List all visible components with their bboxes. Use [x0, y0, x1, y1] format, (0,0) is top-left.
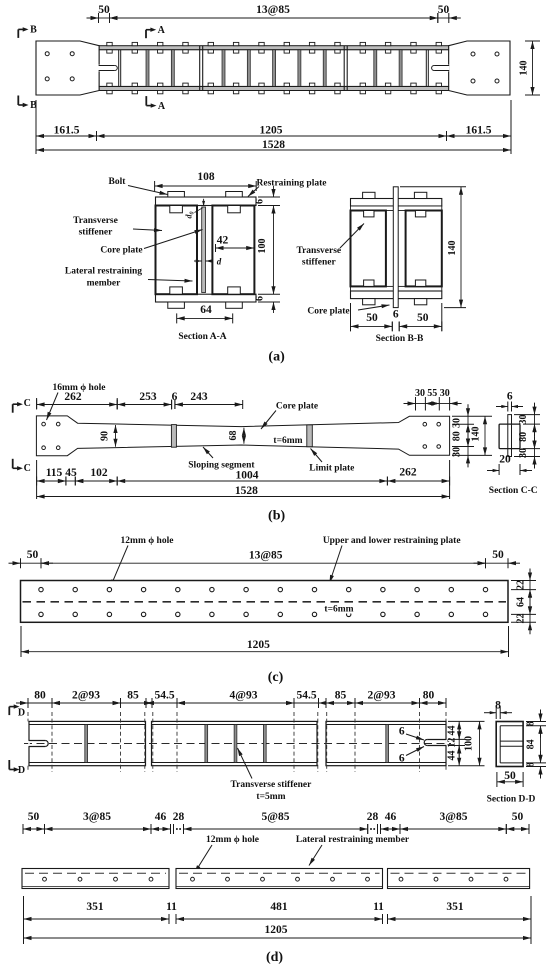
label d0 (A-A) [185, 199, 206, 219]
bottom restraining plate (A-A) [156, 294, 257, 302]
dim 262 bottom (b) [387, 460, 449, 499]
dim 115 (b) [37, 460, 66, 499]
dim 50 left (c) [9, 549, 54, 568]
svg-text:1528: 1528 [235, 485, 258, 497]
bolt holes strips (d) [43, 877, 508, 881]
dim 1205 (c) [21, 626, 509, 657]
core plate (B-B) [393, 187, 398, 308]
centerline dashed (d) [24, 743, 451, 745]
svg-text:6: 6 [507, 391, 513, 403]
core slot left (d) [28, 741, 48, 747]
svg-text:Core plate: Core plate [307, 307, 349, 317]
label Transverse stiffener (B-B) [296, 224, 364, 268]
svg-text:1205: 1205 [265, 924, 288, 936]
dim 253 top (b) [117, 391, 171, 410]
svg-text:Restraining plate: Restraining plate [257, 179, 327, 189]
dim 1205 (d) [24, 924, 532, 940]
svg-text:1528: 1528 [262, 139, 285, 151]
svg-text:140: 140 [447, 241, 458, 256]
upper restraining plate band (a) [99, 46, 448, 50]
dim d core thickness (A-A) [194, 257, 222, 267]
dim 140 (B-B) [400, 187, 466, 308]
svg-text:42: 42 [217, 235, 229, 247]
svg-text:Upper and lower restraining pl: Upper and lower restraining plate [323, 536, 461, 546]
svg-text:102: 102 [90, 467, 108, 479]
bolts (B-B) [363, 192, 427, 305]
svg-text:13@85: 13@85 [249, 550, 283, 562]
dim 6 top (A-A) [255, 186, 281, 204]
label Limit plate (b) [309, 449, 354, 474]
svg-text:64: 64 [200, 304, 212, 316]
dim 6 top (b) [172, 391, 178, 409]
dim 64 (A-A) [177, 304, 233, 323]
dims hole spacing row (d) [23, 811, 529, 834]
label 16mm hole (b) [47, 383, 106, 420]
extension lines (a) bottom [36, 100, 511, 154]
section marker D top [9, 704, 25, 718]
label 12mm hole (d) [195, 835, 259, 873]
svg-text:100: 100 [464, 736, 475, 751]
svg-text:108: 108 [197, 171, 215, 183]
svg-text:2@93: 2@93 [72, 690, 100, 702]
holes right end (b) [423, 422, 441, 448]
dim 44-12-44 (d) [447, 721, 485, 765]
slot end stiffener left (a) [119, 50, 121, 87]
svg-text:44: 44 [447, 726, 458, 736]
top flange band (B-B) [351, 206, 442, 211]
svg-text:80: 80 [34, 690, 46, 702]
svg-text:6: 6 [393, 309, 399, 321]
right lateral restraining member (B-B) [406, 211, 442, 287]
top restraining plate (B-B) [351, 199, 442, 207]
svg-text:3@85: 3@85 [440, 811, 468, 823]
label Core plate (b) [261, 402, 318, 430]
dim 6 bottom (A-A) [255, 296, 281, 313]
caption (a) [268, 350, 285, 365]
svg-text:t=6mm: t=6mm [324, 605, 353, 615]
dim 6 (C-C) [496, 391, 523, 412]
svg-text:50: 50 [417, 312, 429, 324]
svg-text:46: 46 [385, 811, 397, 823]
svg-text:stiffener: stiffener [79, 228, 114, 238]
svg-text:100: 100 [257, 239, 268, 254]
svg-text:Bolt: Bolt [109, 177, 127, 187]
dim 13@85 (a) top [110, 4, 438, 23]
svg-text:6: 6 [255, 199, 266, 204]
dim 351 right (d) [388, 896, 532, 944]
svg-text:(b): (b) [268, 509, 285, 524]
caption Section B-B [376, 334, 424, 344]
svg-text:22: 22 [516, 580, 527, 590]
svg-text:140: 140 [471, 427, 482, 442]
dim 262 top (b) [37, 391, 118, 410]
svg-text:54.5: 54.5 [154, 690, 174, 702]
svg-text:85: 85 [127, 690, 139, 702]
dim 68 (b) [228, 428, 246, 444]
left end plate (a) [36, 41, 99, 95]
dim 1205 (a) [97, 125, 447, 142]
label 6 top slot (d) [399, 726, 424, 741]
svg-text:50: 50 [504, 770, 516, 782]
svg-text:22: 22 [516, 614, 527, 624]
dim 50 right (a) top [426, 4, 461, 23]
svg-text:Section D-D: Section D-D [487, 795, 536, 805]
label Bolt (A-A) [109, 177, 168, 195]
caption (d) [266, 950, 283, 965]
label Core plate (B-B) [307, 304, 389, 316]
dim 50 left (a) top [87, 4, 122, 23]
svg-text:C: C [24, 463, 31, 474]
dim 8-84-8 right (D-D) [526, 710, 547, 779]
bolt tabs (a) [107, 42, 442, 93]
dim 30-80-30 (C-C) [514, 403, 540, 469]
svg-text:481: 481 [270, 901, 288, 913]
svg-text:12mm ϕ hole: 12mm ϕ hole [121, 536, 174, 546]
dim 20 (C-C) [487, 454, 532, 476]
svg-text:50: 50 [28, 811, 40, 823]
holes left end (b) [42, 422, 60, 449]
svg-text:Limit plate: Limit plate [309, 464, 354, 474]
svg-text:161.5: 161.5 [466, 125, 492, 137]
svg-text:D: D [18, 765, 25, 776]
svg-text:Transverse: Transverse [296, 246, 341, 256]
svg-text:D: D [18, 708, 25, 719]
label t=6mm (b) [273, 436, 302, 446]
svg-text:30: 30 [452, 447, 463, 457]
dim 100 (A-A) [257, 206, 280, 295]
label Lateral restraining member (A-A) [65, 267, 193, 289]
svg-text:50: 50 [98, 4, 110, 16]
svg-text:50: 50 [438, 4, 450, 16]
dim 13@85 (c) [41, 550, 486, 569]
top restraining plate (A-A) [156, 197, 257, 206]
section D-D inner lines [500, 726, 523, 763]
slot end stiffener right (a) [426, 50, 428, 87]
dim 22-64-22 (c) [511, 569, 536, 635]
svg-text:30: 30 [518, 415, 529, 425]
svg-text:6: 6 [399, 753, 405, 765]
svg-text:Section B-B: Section B-B [376, 334, 424, 344]
core slot right (a) [432, 65, 450, 72]
bolt lines dashed (d) [28, 712, 446, 772]
bottom restraining plate (B-B) [351, 291, 442, 299]
svg-text:351: 351 [86, 901, 104, 913]
svg-text:12: 12 [447, 738, 458, 748]
caption (b) [268, 509, 285, 524]
core plate edge (A-A) [202, 207, 206, 293]
section marker D bottom [9, 760, 25, 776]
svg-text:80: 80 [452, 431, 463, 441]
dim 11 left (d) [166, 901, 177, 924]
segment splice right (a) [344, 46, 347, 91]
svg-text:stiffener: stiffener [302, 258, 337, 268]
svg-text:11: 11 [166, 901, 177, 913]
label Upper and lower restraining plate (c) [323, 536, 461, 583]
svg-text:351: 351 [446, 901, 464, 913]
svg-text:Lateral restraining member: Lateral restraining member [296, 835, 410, 845]
bottom flange band (B-B) [351, 286, 442, 291]
left lateral restraining member (A-A) [156, 206, 198, 295]
restraining plate (c) [21, 581, 509, 623]
svg-text:20: 20 [499, 454, 511, 466]
centerline dashed (c) [23, 601, 507, 603]
svg-text:262: 262 [399, 467, 417, 479]
bolts (A-A) [168, 192, 243, 309]
svg-text:64: 64 [516, 597, 527, 607]
left lateral restraining member (B-B) [351, 211, 386, 287]
svg-text:46: 46 [155, 811, 167, 823]
svg-text:6: 6 [255, 296, 266, 301]
dim 108 (A-A) [155, 171, 257, 191]
dim 42 (A-A) [216, 235, 255, 253]
svg-text:5@85: 5@85 [262, 811, 290, 823]
svg-text:A: A [158, 101, 166, 112]
dim 481 (d) [176, 901, 383, 924]
svg-text:50: 50 [512, 811, 524, 823]
dim 1528 (a) [36, 139, 511, 152]
svg-text:253: 253 [139, 391, 157, 403]
dim 45 (b) [54, 467, 87, 486]
dim 50 right (c) [474, 549, 521, 568]
transverse stiffeners (d) [85, 725, 389, 763]
svg-text:Core plate: Core plate [276, 402, 318, 412]
svg-text:d: d [217, 257, 222, 267]
section D-D core slot lines [500, 741, 523, 746]
limit plate right (b) [307, 425, 313, 447]
svg-text:30: 30 [518, 448, 529, 458]
section marker A top [146, 25, 166, 38]
dim 50 right (B-B) [399, 303, 442, 331]
section marker B bottom [18, 96, 37, 112]
svg-text:11: 11 [373, 901, 384, 913]
dim 100 (d) [464, 721, 482, 765]
core plate outline (b) [36, 416, 449, 456]
label Core plate (A-A) [100, 230, 202, 256]
svg-text:85: 85 [335, 690, 347, 702]
limit plate block (C-C) [499, 424, 520, 449]
svg-text:(a): (a) [268, 350, 285, 365]
label Transverse stiffener (A-A) [73, 216, 162, 238]
core plate strip (C-C) [508, 415, 512, 457]
svg-text:68: 68 [228, 431, 239, 441]
lower restraining plate band (a) [99, 86, 448, 90]
svg-text:50: 50 [492, 549, 504, 561]
svg-text:54.5: 54.5 [296, 690, 316, 702]
svg-text:Section C-C: Section C-C [489, 486, 538, 496]
segment splice left (a) [200, 46, 203, 91]
svg-text:243: 243 [190, 391, 208, 403]
body interior (a) [99, 50, 448, 87]
svg-text:1004: 1004 [236, 470, 259, 482]
section D-D outline [496, 722, 523, 767]
dim 30-55-30 top right (b) [404, 388, 462, 411]
svg-text:161.5: 161.5 [54, 125, 80, 137]
right lateral restraining member (A-A) [212, 206, 254, 295]
dim 243 top (b) [175, 391, 243, 409]
section marker C bottom [13, 459, 31, 474]
svg-text:Section A-A: Section A-A [178, 332, 226, 342]
dim 351 left (d) [24, 896, 170, 944]
lateral restraining member segments (d) [29, 721, 446, 765]
dim 1528 (b) [37, 485, 450, 499]
svg-text:Transverse stiffener: Transverse stiffener [230, 780, 312, 790]
label t=6mm (c) [321, 603, 357, 615]
svg-text:55: 55 [427, 388, 437, 399]
left end plate holes (a) [45, 52, 74, 81]
svg-text:50: 50 [27, 549, 39, 561]
dim 11 right (d) [373, 901, 387, 924]
svg-text:1205: 1205 [260, 125, 283, 137]
svg-text:8: 8 [526, 721, 537, 726]
dim 140 right (a) [519, 41, 541, 95]
svg-text:50: 50 [366, 312, 378, 324]
svg-text:C: C [24, 398, 31, 409]
svg-text:84: 84 [526, 739, 537, 749]
dim 50 left (B-B) [351, 303, 393, 331]
svg-text:member: member [87, 279, 122, 289]
svg-text:1205: 1205 [247, 639, 270, 651]
dim 90 (b) [100, 425, 118, 447]
dim 8 top (D-D) [484, 700, 512, 720]
svg-text:28: 28 [173, 811, 185, 823]
dim 30-80-30 end block (b) [452, 404, 493, 467]
limit plate left (b) [171, 425, 176, 448]
caption Section A-A [178, 332, 226, 342]
svg-text:A: A [158, 25, 166, 36]
svg-text:90: 90 [100, 431, 111, 441]
dim 50 bottom (D-D) [497, 770, 523, 787]
svg-text:6: 6 [399, 726, 405, 738]
svg-text:80: 80 [518, 432, 529, 442]
label Lateral restraining member (d) [296, 835, 410, 866]
svg-text:30: 30 [440, 388, 450, 399]
svg-text:262: 262 [64, 391, 82, 403]
dim 161.5 right (a) [447, 125, 512, 142]
svg-text:B: B [30, 25, 37, 36]
label 12mm hole (c) [110, 536, 173, 587]
svg-text:2@93: 2@93 [368, 690, 396, 702]
label Sloping segment (b) [188, 447, 255, 471]
svg-text:80: 80 [423, 690, 435, 702]
dim 6 core (B-B) [392, 309, 399, 331]
dims top row (d) [16, 690, 446, 709]
section marker A bottom [146, 96, 166, 112]
svg-text:(c): (c) [268, 670, 284, 685]
dim 161.5 left (a) [36, 125, 97, 142]
svg-text:Core plate: Core plate [100, 246, 142, 256]
svg-text:115: 115 [46, 467, 63, 479]
svg-text:30: 30 [452, 418, 463, 428]
dim 102 (b) [75, 467, 117, 486]
svg-text:(d): (d) [266, 950, 283, 965]
core slot right (d) [424, 740, 447, 746]
svg-text:3@85: 3@85 [83, 811, 111, 823]
svg-text:13@85: 13@85 [256, 4, 290, 16]
svg-text:12mm ϕ hole: 12mm ϕ hole [206, 835, 259, 845]
svg-text:44: 44 [447, 751, 458, 761]
right end plate (a) [449, 41, 510, 95]
svg-text:4@93: 4@93 [230, 690, 258, 702]
caption (c) [268, 670, 284, 685]
svg-text:140: 140 [519, 61, 530, 76]
svg-text:8: 8 [526, 762, 537, 767]
svg-text:Lateral restraining: Lateral restraining [65, 267, 142, 277]
caption Section C-C [489, 486, 538, 496]
dim 140 (b) [471, 416, 488, 455]
dim 1004 (b) [117, 470, 387, 486]
core slot left (a) [99, 65, 118, 72]
right end plate holes (a) [471, 52, 499, 83]
svg-text:t=5mm: t=5mm [256, 792, 285, 802]
section marker C top [13, 398, 31, 413]
svg-text:28: 28 [367, 811, 379, 823]
transverse stiffeners in elevation (a) [146, 50, 402, 87]
caption Section D-D [487, 795, 536, 805]
label Restraining plate (A-A) [248, 179, 326, 197]
label 6 bottom slot (d) [399, 747, 424, 765]
section marker B top [18, 25, 37, 38]
svg-text:t=6mm: t=6mm [273, 436, 302, 446]
svg-text:Transverse: Transverse [73, 216, 118, 226]
bolt holes (c) [39, 587, 488, 616]
lateral restraining member strips (d) [22, 869, 530, 889]
svg-text:30: 30 [415, 388, 425, 399]
label Transverse stiffener (d) [230, 748, 312, 802]
